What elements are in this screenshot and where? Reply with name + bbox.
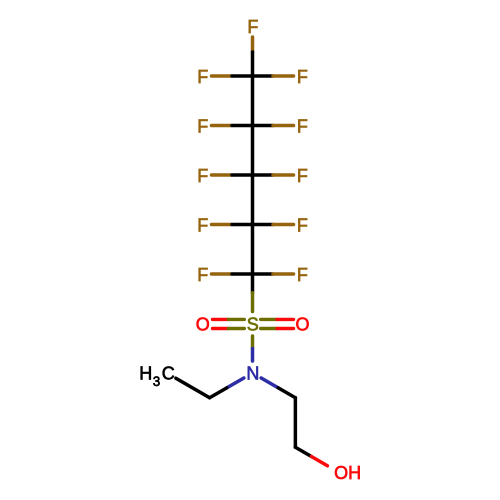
- bond C1 to F1-right (C-F): [253, 74, 294, 78]
- bond F2-left to C2 (C-F): [212, 124, 253, 128]
- svg-text:3: 3: [153, 374, 161, 389]
- bond C3 to F3-right (C-F): [253, 173, 294, 177]
- svg-text:F: F: [297, 116, 308, 136]
- label H3C (methyl): [139, 363, 175, 389]
- svg-text:H: H: [139, 363, 152, 383]
- svg-text:N: N: [246, 364, 259, 384]
- svg-text:F: F: [297, 265, 308, 285]
- svg-text:S: S: [247, 315, 259, 335]
- svg-text:F: F: [297, 166, 308, 186]
- svg-text:F: F: [197, 215, 208, 235]
- svg-text:F: F: [197, 265, 208, 285]
- bond N-CH2 (ethyl): [210, 378, 244, 398]
- bond F1-left to C1 (C-F): [212, 74, 253, 78]
- bond C2 to F2-right (C-F): [253, 124, 294, 128]
- bond C3-C4 (C-C): [251, 175, 255, 225]
- bond F-top to C1 (C-F): [251, 37, 255, 76]
- bond C2-C3 (C-C): [251, 126, 255, 176]
- bond S-N: [251, 336, 255, 361]
- svg-text:F: F: [197, 67, 208, 87]
- svg-text:F: F: [197, 116, 208, 136]
- bond N-CH2 (hydroxyethyl): [261, 378, 295, 398]
- bond C4-C5 (C-C): [251, 225, 255, 275]
- svg-text:F: F: [197, 166, 208, 186]
- svg-text:F: F: [297, 215, 308, 235]
- double bond S=O right: [261, 319, 294, 328]
- bond C5 to F5-right (C-F): [253, 272, 294, 276]
- bond C1-C2 (C-C): [251, 76, 255, 126]
- svg-text:F: F: [297, 67, 308, 87]
- bond CH2-CH3 (ethyl): [176, 378, 210, 398]
- bond C5-S: [251, 274, 255, 312]
- bond CH2-OH (C-O): [295, 447, 327, 466]
- svg-text:O: O: [196, 315, 210, 335]
- double bond S=O left: [213, 319, 245, 328]
- bond F3-left to C3 (C-F): [212, 173, 253, 177]
- bond F4-left to C4 (C-F): [212, 223, 253, 227]
- svg-text:F: F: [247, 17, 258, 37]
- bond C4 to F4-right (C-F): [253, 223, 294, 227]
- svg-text:OH: OH: [334, 463, 361, 483]
- svg-text:C: C: [162, 363, 175, 383]
- bond F5-left to C5 (C-F): [212, 272, 253, 276]
- bond CH2-CH2 (hydroxyethyl): [294, 398, 298, 448]
- svg-text:O: O: [295, 315, 309, 335]
